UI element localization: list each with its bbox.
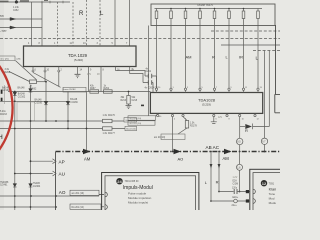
svg-text:R2177: R2177 — [108, 133, 115, 135]
main audio wire y=91.5 — [8, 91, 150, 93]
test circle 9.7 — [261, 138, 267, 144]
resistor R268 — [103, 90, 112, 93]
wire R into module cap C — [219, 191, 250, 193]
stub above node C252 — [15, 0, 17, 2]
bus arrows — [83, 149, 232, 169]
resistor R2178 — [185, 121, 188, 129]
pin circles top TDA1028 — [155, 88, 157, 90]
wire diode to right riser — [253, 51, 270, 127]
wire vertical x=129.5 — [129, 0, 131, 46]
diode V2161 — [29, 89, 33, 92]
resistor bank box top right — [149, 4, 276, 116]
dashed horizontal y=31 right — [211, 30, 280, 32]
svg-text:R262: R262 — [104, 88, 110, 90]
resistor top stubs — [157, 9, 259, 12]
svg-text:R2178: R2178 — [190, 125, 197, 127]
right partial box at image edge — [275, 25, 281, 113]
wire pin 239.7 down to test circle 9.5 — [239, 117, 241, 139]
module 12 badge — [261, 180, 267, 186]
diode V2166a — [44, 101, 48, 104]
svg-text:C261: C261 — [146, 71, 152, 73]
svg-text:12V: 12V — [87, 74, 92, 76]
svg-text:IR: IR — [239, 54, 243, 59]
ground symbol pin x=77.5 — [75, 74, 81, 77]
wire y=207 — [0, 206, 56, 208]
diagonal R2178 to ref box — [178, 128, 187, 134]
wire x=156.5 down to ref box — [156, 19, 158, 89]
wire vertical x=31.5 — [31, 2, 33, 46]
wire vertical dashed x=86.5 — [86, 0, 88, 46]
boxed ref top-left — [0, 56, 15, 61]
diagonal pin183 to R2178 — [183, 117, 187, 121]
diode chain vertical x=68 — [67, 92, 69, 129]
svg-text:Mod: Mod — [269, 196, 275, 200]
svg-text:4n C2614 20: 4n C2614 20 — [145, 87, 159, 89]
svg-text:BA148: BA148 — [18, 93, 26, 96]
svg-text:7N41B8: 7N41B8 — [0, 182, 9, 184]
diagonal wire D1 to resistor R2062 — [16, 61, 37, 80]
resistor R2062 — [30, 80, 37, 84]
svg-text:Green 352BV: Green 352BV — [63, 88, 77, 91]
pin stubs bottom TDA1028 — [158, 113, 255, 114]
dashed horizontal y=50.5 right — [253, 50, 280, 52]
module 12 pin blobs — [246, 190, 249, 203]
left edge scan shade — [0, 0, 4, 210]
test circle 239.5 mid — [237, 164, 243, 170]
svg-text:120u: 120u — [232, 188, 238, 190]
wire top horizontal y=2 — [0, 1, 70, 3]
L wire bend from pin x=115.6 — [116, 67, 145, 77]
svg-text:R: R — [212, 54, 215, 59]
svg-text:AM: AM — [186, 54, 192, 59]
polarity mark small — [141, 105, 144, 107]
module 12 box — [250, 169, 293, 222]
boxed ref am20 — [161, 134, 185, 140]
connector fork AP — [53, 159, 57, 164]
wire vertical x=46 pin to line1 — [45, 72, 46, 121]
lower diodes — [13, 184, 32, 187]
svg-text:1.13k: 1.13k — [13, 7, 19, 9]
svg-text:R: R — [79, 11, 84, 17]
svg-text:C/2M: C/2M — [233, 183, 239, 185]
node ticks on top wire — [42, 1, 63, 4]
wire L into module electrolytic — [211, 200, 250, 202]
diode bar — [252, 124, 254, 130]
boxed ref green wire — [63, 87, 86, 92]
electrolytic cap circle — [234, 199, 238, 203]
R wire bend from pin x=129.7 — [130, 67, 143, 83]
paper background — [0, 0, 280, 210]
svg-text:AO: AO — [178, 157, 184, 162]
horizontal line2 y=128.5 — [0, 128, 125, 130]
module 24 box — [70, 173, 199, 215]
svg-text:E2A+: E2A+ — [233, 196, 239, 199]
ground below R216 — [126, 104, 132, 109]
left edge terminal ticks — [1, 90, 3, 102]
svg-text:TS91: TS91 — [269, 184, 275, 186]
svg-text:R208: R208 — [5, 72, 11, 74]
boxed ref am201 — [70, 190, 99, 195]
svg-text:7N41B: 7N41B — [33, 183, 40, 185]
svg-text:(5.219): (5.219) — [202, 102, 211, 106]
svg-text:BA148: BA148 — [35, 99, 43, 102]
signal wire y=27.5 — [0, 27, 42, 29]
svg-text:(28): (28) — [17, 59, 21, 61]
svg-text:DA 201 (10): DA 201 (10) — [72, 206, 84, 209]
top edge print fragments — [0, 0, 48, 2]
diode R arrow — [245, 124, 252, 129]
wire pin172.5 to bus — [172, 117, 174, 152]
svg-text:AM: AM — [84, 156, 91, 161]
svg-text:C/2162: C/2162 — [18, 96, 26, 98]
svg-text:C/2461: C/2461 — [0, 185, 8, 187]
resistor R267 — [90, 90, 99, 93]
dashed horizontal bus y=38.5 — [0, 38, 280, 40]
svg-text:R2062: R2062 — [30, 88, 37, 90]
svg-text:1.2V: 1.2V — [233, 177, 238, 179]
svg-text:R2163: R2163 — [0, 114, 7, 116]
ground pin 213.8 — [211, 117, 217, 124]
diode V2162 on x=14.8 — [13, 92, 17, 95]
bank bus — [155, 8, 263, 10]
svg-text:12V: 12V — [218, 117, 223, 119]
svg-text:Pulse module: Pulse module — [128, 192, 147, 196]
svg-text:GO 201 (10): GO 201 (10) — [130, 118, 142, 120]
svg-text:~T05T: ~T05T — [0, 31, 7, 33]
wire y=101.3 diode feed — [0, 100, 68, 102]
wire vertical dashed x=100 — [99, 0, 101, 46]
wires refs to pins — [99, 195, 104, 207]
right riser x=264.5 — [264, 51, 266, 139]
diagonal wire to green ref box — [33, 73, 61, 88]
pulse bus dash-dot y=151.5 — [56, 152, 280, 211]
svg-text:mk tv (20): mk tv (20) — [0, 58, 9, 61]
wire vertical x=115 — [114, 0, 116, 46]
wire x=148.5 down to ref box — [148, 26, 150, 116]
wire vertical dashed x=57.5 — [57, 2, 59, 46]
svg-text:AM: AM — [223, 156, 230, 161]
pin circles bottom TDA1028 — [157, 114, 159, 116]
svg-text:H: H — [0, 134, 3, 141]
wires circles to bus — [240, 145, 265, 152]
IC U2 TDA1028 box — [150, 93, 262, 114]
boxed ref DA201 — [70, 204, 101, 209]
svg-text:R2176: R2176 — [108, 115, 115, 117]
horizontal line1 y=121 — [0, 118, 137, 131]
GO ref boxes under bank wires — [128, 114, 158, 125]
diode V2464 on x=30.5 — [29, 184, 33, 187]
resistor R2177 on line2 — [103, 127, 113, 130]
wire AJ y=173.5 — [15, 173, 53, 175]
wire vertical dashed x=73 — [72, 2, 74, 46]
svg-text:D6288 8x470: D6288 8x470 — [198, 4, 214, 7]
wire AP y=161.2 — [31, 160, 53, 162]
signal wire y=19 — [0, 18, 42, 20]
svg-text:(5.216): (5.216) — [74, 58, 83, 62]
svg-text:5.21k: 5.21k — [0, 111, 6, 113]
svg-text:am 201 (10): am 201 (10) — [72, 193, 85, 195]
down arrows on L R drops — [210, 164, 213, 169]
svg-text:22u+: 22u+ — [232, 205, 238, 207]
coupling cap wire C2614 y=82.5 — [143, 83, 153, 93]
wire resistor to x=46 — [37, 81, 47, 83]
dashed horizontal y=45 right — [221, 44, 280, 46]
diagonal wire D2 to resistor R2062 — [9, 72, 30, 82]
connector fork AJ — [53, 171, 57, 176]
svg-text:C252: C252 — [13, 10, 19, 12]
svg-text:C/2166: C/2166 — [70, 102, 78, 104]
svg-text:Module impulsion: Module impulsion — [128, 196, 152, 200]
L R drop wires right — [211, 152, 250, 203]
test circle 9.5 — [237, 138, 243, 144]
svg-text:R: R — [216, 180, 219, 185]
junction dots bank bus — [170, 8, 244, 10]
faint vertical near left edge — [3, 85, 5, 104]
svg-text:C218: C218 — [132, 100, 138, 102]
module 24 badge — [116, 178, 122, 184]
svg-text:GO 201 (10): GO 201 (10) — [130, 123, 142, 125]
svg-text:C/2166: C/2166 — [35, 102, 43, 104]
wires bank down to TDA1028 — [171, 19, 258, 89]
junction node C252 — [15, 1, 18, 4]
svg-text:R: R — [245, 128, 248, 133]
svg-text:L: L — [256, 56, 259, 61]
svg-text:Modulo impulsi: Modulo impulsi — [128, 200, 148, 204]
coupling cap wire C261 y=76 — [145, 76, 157, 88]
svg-text:R216: R216 — [121, 100, 127, 102]
module 24 pin arcs — [105, 192, 107, 209]
wire AO y=196 — [0, 195, 99, 197]
module 12 pin arcs — [253, 189, 255, 203]
svg-text:Klan: Klan — [269, 187, 277, 191]
svg-text:AB AC: AB AC — [206, 145, 220, 150]
arrowhead input y=19 — [10, 18, 16, 21]
svg-text:BA148: BA148 — [70, 98, 78, 101]
wire diode feed — [240, 126, 245, 128]
svg-text:BA148: BA148 — [2, 87, 10, 90]
diodes small filled — [10, 1, 70, 105]
svg-text:Tone: Tone — [269, 192, 276, 196]
svg-text:am 20 (10): am 20 (10) — [154, 137, 165, 139]
wire vertical x=14.8 full — [14, 92, 16, 211]
IC U1 TDA1029 box — [24, 46, 137, 67]
diode V2166b — [66, 101, 70, 104]
resistor R216 vertical — [127, 96, 130, 105]
svg-text:12: 12 — [262, 181, 267, 186]
svg-text:E2A: E2A — [233, 180, 238, 183]
svg-text:C/2464: C/2464 — [33, 186, 41, 188]
resistor R2176 on line1 — [103, 119, 113, 122]
boxed ref end line2 — [125, 126, 137, 130]
pin circles below TDA1029 — [32, 70, 34, 72]
svg-text:Board (10): Board (10) — [126, 129, 136, 131]
svg-text:R267: R267 — [90, 88, 96, 90]
wire pin 58.8 down to green ref — [58, 72, 60, 86]
small texts — [0, 4, 266, 209]
svg-text:Modu: Modu — [269, 201, 277, 205]
svg-text:24: 24 — [117, 179, 122, 184]
diode V2461 on x=14.8 — [13, 184, 17, 187]
svg-text:76011 065 00: 76011 065 00 — [125, 181, 140, 183]
boxed ref end line1 — [124, 118, 137, 122]
red marker circle — [0, 36, 13, 180]
arrowhead input y=27.5 — [10, 26, 16, 29]
bank resistors 8x — [155, 11, 158, 19]
wire vertical x=30.5 — [30, 85, 32, 210]
wire vertical x=42 — [41, 2, 43, 46]
svg-text:TDA1028: TDA1028 — [198, 97, 216, 102]
wire vertical x=86.5 to bus — [86, 92, 88, 152]
svg-text:C/2161: C/2161 — [2, 90, 10, 92]
svg-text:AP: AP — [59, 159, 65, 164]
svg-text:0V: 0V — [97, 74, 100, 76]
pin stubs below TDA1029 — [33, 67, 101, 92]
svg-text:AO: AO — [59, 190, 66, 195]
svg-text:AU: AU — [59, 172, 65, 177]
svg-text:BA148: BA148 — [18, 87, 26, 90]
svg-text:Impuls-Modul: Impuls-Modul — [123, 185, 153, 191]
faint component outline box — [17, 102, 35, 121]
